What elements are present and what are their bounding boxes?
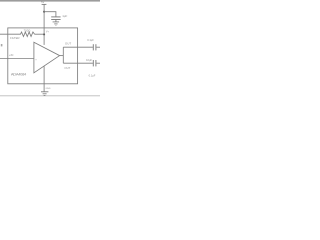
wire supply vertical: [43, 4, 45, 45]
svg-text:V+: V+: [46, 30, 50, 33]
capacitor C1 bypass plates: [51, 16, 60, 18]
svg-text:0.1µF: 0.1µF: [87, 38, 94, 42]
wire output lower branch: [63, 62, 93, 64]
page rule top: [0, 0, 100, 2]
svg-text:+: +: [35, 59, 37, 62]
svg-text:10µF: 10µF: [86, 58, 92, 62]
resistor R1: [21, 32, 35, 37]
node supply junction dot: [43, 11, 45, 13]
node V+ junction dot: [43, 33, 45, 35]
wire bypass branch: [44, 12, 56, 17]
svg-text:GND: GND: [46, 88, 51, 90]
wire input IN (left lower): [0, 58, 34, 60]
svg-text:1µF: 1µF: [62, 14, 67, 18]
op-amp boundary box U1: [8, 28, 78, 84]
ground (bottom): [41, 91, 48, 93]
capacitor C3 output lower: [92, 60, 94, 66]
svg-text:OUT: OUT: [65, 41, 72, 45]
wire cap to ground: [55, 20, 57, 22]
wire op-amp output stem: [60, 55, 64, 57]
ground (bypass): [53, 21, 60, 23]
svg-text:0.1µF: 0.1µF: [89, 73, 96, 77]
wire input FILTER (left): [0, 33, 21, 35]
svg-text:+IN: +IN: [9, 53, 13, 57]
crop smudge left edge: [1, 44, 3, 46]
page rule bottom: [0, 94, 100, 97]
wire op-amp V- to ground: [43, 66, 45, 92]
wire upper branch out: [96, 46, 100, 48]
op-amp A1 triangle: [34, 42, 60, 73]
svg-text:OUT: OUT: [64, 66, 70, 70]
supply terminal bar: [42, 3, 47, 5]
svg-text:5V: 5V: [41, 0, 45, 4]
svg-text:FILTER: FILTER: [10, 36, 19, 40]
wire output tee vertical: [62, 47, 64, 63]
capacitor C2 output upper: [92, 44, 94, 50]
wire resistor to V+ node: [35, 33, 45, 35]
svg-text:700Ω: 700Ω: [24, 29, 31, 33]
svg-text:ADA4084: ADA4084: [11, 72, 27, 77]
wire output upper branch: [63, 46, 93, 48]
wire lower branch out: [96, 62, 100, 64]
